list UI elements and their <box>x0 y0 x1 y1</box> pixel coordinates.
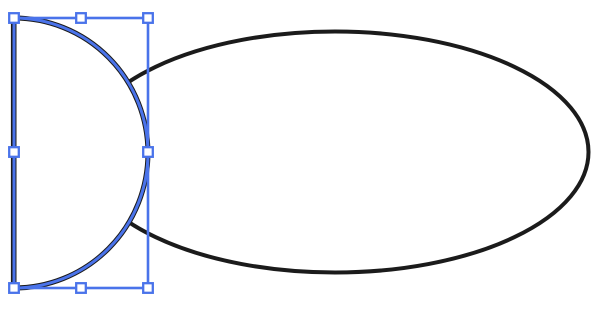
ellipse (unselected black outline) <box>82 32 589 273</box>
handle bottom-right <box>143 283 153 293</box>
handle bottom-middle <box>76 283 86 293</box>
handle bottom-left <box>9 283 19 293</box>
handle mid-right <box>143 147 153 157</box>
selection path highlight (blue) on D <box>14 18 148 288</box>
handle top-right <box>143 13 153 23</box>
D left edge darken (outer sliver of stroke) <box>11 16 13 290</box>
selection bounding box <box>14 18 148 288</box>
half-ellipse D shape (white fill, black stroke) <box>14 18 148 288</box>
handle top-middle <box>76 13 86 23</box>
handle mid-left <box>9 147 19 157</box>
handle top-left <box>9 13 19 23</box>
